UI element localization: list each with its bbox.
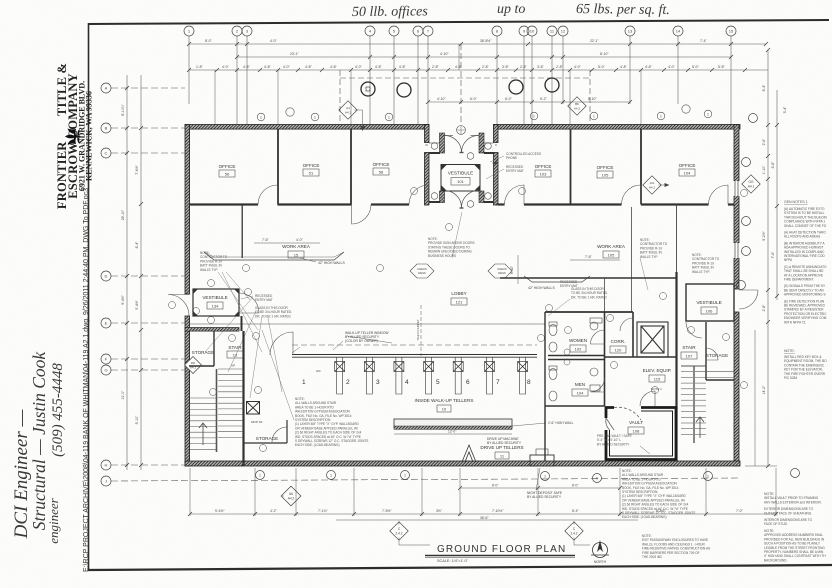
right vertical dimension lines — [745, 50, 777, 466]
bottom exterior wall — [185, 461, 740, 466]
vestibule 106 door (to exterior) — [739, 290, 758, 309]
diamond C/2.4.2 left — [390, 521, 408, 540]
svg-text:103: 103 — [540, 172, 547, 177]
svg-text:C: C — [105, 151, 108, 156]
svg-text:STAIR: STAIR — [682, 345, 696, 350]
svg-text:1: 1 — [660, 115, 662, 119]
svg-text:EACH SIDE. (LOAD-BEARING): EACH SIDE. (LOAD-BEARING) — [295, 443, 340, 447]
svg-text:4'-0": 4'-0" — [296, 238, 304, 242]
svg-text:4'-8": 4'-8" — [620, 65, 628, 69]
rear counter — [394, 419, 512, 429]
diamond marker GG/A4.1 office 104 — [643, 176, 670, 194]
svg-text:2'-8": 2'-8" — [556, 65, 564, 69]
svg-text:WORK AREA: WORK AREA — [597, 244, 626, 249]
svg-text:4'-0": 4'-0" — [283, 65, 291, 69]
svg-text:106: 106 — [706, 309, 713, 314]
top dimension line row 2 — [237, 56, 731, 58]
svg-text:up to: up to — [497, 2, 525, 17]
svg-text:ENTRY MAT: ENTRY MAT — [255, 298, 273, 302]
exterior double entry doors — [445, 135, 480, 152]
top dimension line row 4 (canopy) — [428, 101, 630, 103]
svg-text:GG: GG — [749, 180, 754, 184]
svg-text:2'-6": 2'-6" — [762, 138, 766, 146]
svg-text:A4.2: A4.2 — [574, 107, 581, 111]
svg-text:(509) 455-4448: (509) 455-4448 — [50, 363, 66, 457]
tile/carpet transition — [420, 305, 422, 356]
vestibule 134 interior door — [239, 293, 259, 313]
svg-text:WALLS TYP.: WALLS TYP. — [640, 255, 658, 259]
teller back wall — [544, 312, 546, 461]
lower-left interior walls — [244, 442, 288, 444]
svg-text:10: 10 — [530, 29, 535, 34]
entry recess side walls — [425, 125, 430, 143]
recessed entry mat right note — [560, 280, 608, 299]
svg-text:2.4.2: 2.4.2 — [570, 532, 577, 536]
vestibule 134 walls — [193, 289, 239, 316]
svg-text:4: 4 — [405, 379, 409, 386]
svg-text:LOBBY: LOBBY — [451, 291, 466, 296]
svg-text:22'-1": 22'-1" — [590, 39, 599, 43]
stair treads left (two flights) — [190, 369, 243, 452]
svg-text:OUTSIDE FACE OF SHEATHING.: OUTSIDE FACE OF SHEATHING. — [764, 511, 812, 515]
svg-text:A4.2: A4.2 — [288, 497, 295, 501]
svg-text:PIC 5284: PIC 5284 — [784, 376, 797, 380]
svg-text:13: 13 — [233, 353, 238, 358]
storage lower-left door arc — [272, 427, 287, 442]
svg-text:4'-0": 4'-0" — [574, 65, 582, 69]
sheet border left — [88, 23, 90, 570]
work area divider wall — [241, 205, 243, 259]
svg-text:28'-10": 28'-10" — [121, 209, 125, 220]
svg-text:6: 6 — [466, 379, 470, 386]
svg-text:134: 134 — [212, 304, 219, 309]
svg-text:EACH SIDE. (LOAD-BEARING): EACH SIDE. (LOAD-BEARING) — [622, 515, 667, 519]
storage/stair divider — [213, 331, 215, 366]
svg-text:BY ALLIED SECURITY: BY ALLIED SECURITY — [597, 442, 630, 446]
svg-text:8'-0": 8'-0" — [572, 484, 579, 488]
svg-text:1'-10": 1'-10" — [762, 165, 766, 174]
drive up machine note — [487, 437, 522, 445]
svg-text:FACE OF STUD.: FACE OF STUD. — [764, 522, 788, 526]
svg-text:UP: UP — [231, 364, 235, 368]
entry head walls — [429, 153, 494, 202]
vestibule 106 inner door — [686, 322, 702, 338]
svg-text:OFFICE: OFFICE — [679, 163, 696, 168]
svg-text:HIC: HIC — [316, 369, 321, 373]
counter line — [292, 355, 537, 358]
svg-text:23'-1": 23'-1" — [290, 52, 299, 56]
core right wall — [675, 272, 677, 461]
diamond marker DD/A4.1 left wall — [185, 357, 202, 374]
wall below vestibule 134 — [185, 328, 239, 332]
svg-text:B: B — [105, 126, 108, 131]
diamond marker B6/A4.2 top right — [568, 97, 586, 115]
svg-text:38'-8½": 38'-8½" — [480, 39, 492, 43]
corr bottom / elev equip top — [605, 356, 677, 358]
handwritten top note — [352, 2, 670, 20]
svg-text:FIRE DEPARTMENT.: FIRE DEPARTMENT. — [784, 278, 814, 282]
svg-text:engineer: engineer — [46, 497, 61, 543]
svg-text:1: 1 — [533, 115, 535, 119]
svg-text:DESK: DESK — [418, 271, 426, 275]
svg-text:36'-6": 36'-6" — [480, 516, 489, 520]
svg-text:NOTE:: NOTE: — [784, 349, 795, 353]
lobby floor transition line — [190, 323, 546, 325]
entry door piers — [440, 133, 445, 153]
svg-text:7'-6": 7'-6" — [262, 238, 270, 242]
svg-text:4'-8": 4'-8" — [399, 65, 407, 69]
note contractor right work area — [640, 238, 668, 259]
grab bar circles — [564, 349, 570, 365]
svg-text:8'-10¾": 8'-10¾" — [121, 103, 125, 115]
svg-text:STORAGE: STORAGE — [256, 436, 278, 441]
svg-text:6'-0": 6'-0" — [470, 97, 478, 101]
left lobby door arc — [270, 332, 293, 355]
left wing top exterior wall — [185, 125, 429, 130]
stair up arrow — [199, 423, 207, 445]
teller window leader note — [345, 331, 389, 343]
svg-text:2.4.2: 2.4.2 — [395, 532, 402, 536]
dashed queue lines in lobby — [292, 344, 537, 346]
svg-text:51: 51 — [309, 171, 314, 176]
svg-text:VAULT: VAULT — [629, 420, 643, 425]
svg-text:102: 102 — [575, 347, 582, 352]
svg-text:VESTIBULE: VESTIBULE — [696, 300, 721, 305]
svg-text:1: 1 — [593, 115, 595, 119]
svg-text:DESK: DESK — [498, 271, 506, 275]
svg-text:ALL ROOFS AND AREAS: ALL ROOFS AND AREAS — [784, 235, 820, 239]
svg-text:7'-0": 7'-0" — [736, 509, 744, 513]
svg-text:SHALL CONSIST OF THE FO: SHALL CONSIST OF THE FO — [784, 224, 827, 228]
restroom right wall / corr walls — [604, 312, 606, 406]
svg-text:65 lbs. per sq. ft.: 65 lbs. per sq. ft. — [576, 2, 670, 18]
left vertical dimension lines — [127, 75, 141, 470]
svg-text:5'-4½": 5'-4½" — [135, 299, 139, 309]
svg-text:8'-10": 8'-10" — [510, 266, 514, 274]
right wing top exterior wall — [494, 125, 741, 130]
svg-text:4'-8": 4'-8" — [243, 65, 251, 69]
vestibule 134 right wall lower — [241, 316, 243, 331]
svg-text:50 llb. offices: 50 llb. offices — [352, 4, 429, 20]
diamond A6/A4.2 lower-left — [281, 486, 301, 506]
stair block right wall — [242, 331, 244, 466]
svg-text:4'-8": 4'-8" — [375, 65, 383, 69]
diamond C/2.4.2 right — [565, 521, 583, 540]
svg-text:3'-8": 3'-8" — [502, 65, 510, 69]
svg-text:1: 1 — [314, 116, 316, 120]
svg-text:APPROVED MONITORING S: APPROVED MONITORING S — [784, 293, 826, 297]
svg-text:A4.2: A4.2 — [345, 111, 352, 115]
svg-text:ANY WALLS EXTERIOR and INTERIO: ANY WALLS EXTERIOR and INTERIOR. — [764, 500, 822, 504]
office door arcs — [258, 185, 728, 224]
svg-text:105: 105 — [608, 253, 615, 258]
svg-text:4'-2": 4'-2" — [270, 509, 278, 513]
svg-text:A4.1: A4.1 — [649, 186, 656, 190]
svg-text:ENTRY MAT: ENTRY MAT — [506, 169, 524, 173]
svg-text:VESTIBULE: VESTIBULE — [202, 295, 227, 300]
svg-text:D: D — [105, 274, 108, 279]
svg-text:WALLS TYP.: WALLS TYP. — [200, 268, 218, 272]
svg-text:21'-0": 21'-0" — [121, 390, 125, 399]
svg-text:121: 121 — [456, 300, 463, 305]
svg-text:2'-8": 2'-8" — [432, 65, 440, 69]
svg-text:1'-8": 1'-8" — [196, 65, 204, 69]
under counter dim — [394, 433, 512, 435]
room number boxes — [207, 168, 717, 459]
svg-text:7'-6": 7'-6" — [771, 251, 775, 259]
svg-text:OFFICE: OFFICE — [219, 164, 236, 169]
svg-text:4'-0": 4'-0" — [270, 39, 278, 43]
svg-text:4'-0": 4'-0" — [222, 65, 230, 69]
svg-text:5'-2": 5'-2" — [540, 97, 548, 101]
long leader diagonals (note references) — [205, 212, 648, 420]
svg-text:5'-0": 5'-0" — [598, 65, 606, 69]
night deposit safe — [530, 455, 554, 466]
women/men divider wall — [548, 356, 604, 360]
svg-text:SCALE: 1/4"=1'-0": SCALE: 1/4"=1'-0" — [437, 559, 469, 563]
note above doors (left center) — [428, 237, 475, 258]
svg-text:KENNEWICK, WA 99336: KENNEWICK, WA 99336 — [85, 91, 94, 181]
svg-text:14: 14 — [676, 29, 681, 34]
svg-text:1: 1 — [260, 116, 262, 120]
keynote circles at entries — [431, 126, 491, 208]
svg-text:4'-0": 4'-0" — [355, 65, 363, 69]
svg-text:8'-4": 8'-4" — [135, 241, 139, 249]
restrooms bottom wall — [545, 405, 605, 407]
svg-text:OFFICE: OFFICE — [535, 164, 552, 169]
svg-text:8'-10": 8'-10" — [600, 52, 609, 56]
svg-text:(COLOR BY OWNER): (COLOR BY OWNER) — [345, 339, 378, 343]
office band bottom wall right wing — [498, 203, 734, 205]
svg-text:MOP SK: MOP SK — [251, 420, 263, 424]
svg-text:A6: A6 — [289, 492, 293, 496]
right wall window gaps — [734, 181, 740, 258]
overall dim line with diamonds — [336, 519, 638, 521]
svg-text:8'-8½": 8'-8½" — [656, 509, 666, 513]
interior keynote circles scattered — [169, 188, 748, 452]
storefront glazing corner blocks — [441, 165, 480, 192]
svg-text:A4: A4 — [346, 106, 350, 110]
drive up window triangle — [462, 445, 476, 462]
mop sink shaft with X — [247, 402, 260, 415]
dimension text top — [196, 39, 726, 101]
logo fleur-de-lis — [65, 129, 81, 145]
svg-text:GG: GG — [650, 181, 655, 185]
svg-text:DR. TO BE 1 HR. RATED: DR. TO BE 1 HR. RATED — [255, 314, 292, 318]
note contractor R-19 left — [200, 251, 228, 272]
svg-text:2: 2 — [346, 379, 350, 386]
top dimension line row 3 — [189, 69, 745, 71]
handwritten engineer note (rotated) — [11, 351, 66, 544]
svg-text:BY ALLIED SECURITY: BY ALLIED SECURITY — [487, 441, 522, 445]
vestibule 134 glazing corners — [193, 289, 239, 316]
svg-text:7'-1¾": 7'-1¾" — [318, 509, 328, 513]
svg-text:WALLS TYP.: WALLS TYP. — [692, 270, 710, 274]
office band bottom wall left wing — [189, 203, 409, 205]
svg-text:7'-6½": 7'-6½" — [135, 164, 139, 174]
svg-text:A4.1: A4.1 — [748, 185, 755, 189]
svg-text:MEN: MEN — [575, 382, 585, 387]
svg-text:1: 1 — [404, 474, 406, 478]
svg-text:14'-2": 14'-2" — [762, 385, 766, 394]
right exterior wall — [734, 125, 739, 290]
svg-text:WITH NFPA 72.: WITH NFPA 72. — [784, 320, 806, 324]
svg-text:8'-4": 8'-4" — [572, 509, 580, 513]
svg-text:STORAGE: STORAGE — [192, 350, 214, 355]
svg-text:NFPA: NFPA — [784, 258, 793, 262]
svg-text:104: 104 — [684, 171, 691, 176]
canopy columns — [361, 78, 559, 97]
svg-text:1: 1 — [259, 474, 261, 478]
office separator walls — [278, 129, 641, 205]
svg-text:5: 5 — [436, 379, 440, 386]
svg-text:1: 1 — [707, 475, 709, 479]
svg-text:42" HIGH WALLS: 42" HIGH WALLS — [528, 286, 555, 290]
svg-text:9'-4½": 9'-4½" — [121, 294, 125, 304]
svg-text:4'-8": 4'-8" — [330, 65, 338, 69]
corridor walls up to offices — [605, 207, 632, 312]
svg-text:ENTRY MAT: ENTRY MAT — [560, 284, 578, 288]
svg-text:15: 15 — [294, 253, 299, 258]
left exterior door arc — [168, 295, 189, 316]
svg-text:CORR.: CORR. — [611, 339, 626, 344]
svg-text:8: 8 — [527, 379, 531, 386]
svg-text:3: 3 — [376, 379, 380, 386]
svg-text:2'-8": 2'-8" — [482, 65, 490, 69]
restroom doors — [591, 318, 634, 392]
svg-text:BUSINESS HOURS: BUSINESS HOURS — [428, 254, 456, 258]
recessed entry mat left note — [255, 294, 292, 318]
top dimension line row 1 — [189, 43, 766, 45]
right lower notes — [764, 492, 822, 526]
svg-text:56: 56 — [225, 172, 230, 177]
diamond marker right — [742, 175, 760, 193]
note contractor R-19 right — [692, 253, 720, 274]
svg-text:8'-4": 8'-4" — [762, 84, 766, 92]
svg-text:WOMEN: WOMEN — [569, 338, 587, 343]
svg-text:4'-8": 4'-8" — [645, 65, 653, 69]
sheet border top — [88, 20, 829, 24]
vault door — [606, 407, 641, 430]
svg-text:2'-8": 2'-8" — [520, 65, 528, 69]
svg-text:10: 10 — [442, 407, 447, 412]
core top wall — [500, 277, 677, 279]
north arrow — [591, 540, 609, 564]
check desk hexagon 2 — [488, 264, 512, 278]
bottom right note (exit passageway) — [642, 534, 710, 559]
svg-text:BACKGROUND.: BACKGROUND. — [764, 558, 788, 562]
svg-text:15: 15 — [729, 29, 734, 34]
svg-text:4'-8": 4'-8" — [264, 65, 272, 69]
svg-text:OFFICE: OFFICE — [303, 163, 320, 168]
svg-text:WORK AREA: WORK AREA — [282, 244, 311, 249]
svg-text:BY ALLIED SECURITY: BY ALLIED SECURITY — [527, 495, 562, 499]
canopy dashed outline — [340, 44, 590, 124]
work area dim marks — [254, 243, 620, 260]
dimension ticks top rows — [187, 42, 768, 104]
elevator shaft — [637, 322, 668, 357]
controlled access phone note — [506, 152, 541, 173]
svg-text:INSIDE WALK-UP TELLERS: INSIDE WALK-UP TELLERS — [415, 398, 474, 403]
keynote circle row above office doors — [257, 105, 712, 121]
svg-text:7: 7 — [496, 379, 500, 386]
svg-text:8'-0": 8'-0" — [492, 484, 499, 488]
svg-text:2'-8": 2'-8" — [762, 304, 766, 312]
svg-text:B6: B6 — [575, 102, 579, 106]
svg-text:5'-8": 5'-8" — [718, 65, 726, 69]
svg-text:4'-8": 4'-8" — [305, 65, 313, 69]
svg-text:DRIVE UP TELLERS: DRIVE UP TELLERS — [480, 445, 523, 450]
svg-text:6'-8": 6'-8" — [771, 161, 775, 169]
stair/storage divider right — [705, 322, 707, 380]
column grid stems to wall — [215, 44, 641, 124]
storefront glazing lines — [429, 142, 494, 144]
right stair up arrow — [696, 417, 704, 438]
vertical extents bottom left dims — [190, 468, 776, 516]
tiny grid bubble letters — [188, 29, 734, 34]
svg-text:GROUND FLOOR PLAN: GROUND FLOOR PLAN — [437, 544, 566, 555]
svg-text:NOTE 1: NOTE 1 — [651, 387, 662, 391]
vestibule 106 walls — [686, 284, 734, 321]
company title block (rotated) — [55, 63, 94, 209]
diamond marker A4/A4.2 top — [339, 101, 365, 131]
svg-text:8'-0": 8'-0" — [205, 39, 213, 43]
restroom fixtures men — [549, 366, 600, 401]
42in high walls right — [524, 276, 590, 282]
svg-text:9'-10": 9'-10" — [135, 415, 139, 424]
svg-text:1: 1 — [388, 116, 390, 120]
svg-text:3½": 3½" — [436, 509, 443, 513]
svg-text:ELEV. EQUIP.: ELEV. EQUIP. — [643, 368, 672, 373]
svg-text:104: 104 — [577, 391, 584, 396]
svg-text:115: 115 — [654, 377, 661, 382]
svg-text:G: G — [104, 368, 107, 373]
svg-text:107: 107 — [686, 354, 693, 359]
keynote circles below bottom wall — [256, 469, 800, 483]
svg-text:4'-0": 4'-0" — [668, 65, 676, 69]
storage right door — [706, 348, 718, 360]
svg-text:THE 2003 IBC: THE 2003 IBC — [642, 555, 663, 559]
svg-text:OFFICE: OFFICE — [373, 162, 390, 167]
svg-text:1: 1 — [330, 474, 332, 478]
svg-text:A: A — [105, 86, 108, 91]
svg-text:105: 105 — [602, 173, 609, 178]
svg-text:9'-2½": 9'-2½" — [762, 230, 766, 240]
stair treads right — [681, 366, 734, 443]
svg-text:8'-10": 8'-10" — [588, 97, 597, 101]
svg-text:1: 1 — [544, 475, 546, 479]
svg-text:7'-10½": 7'-10½" — [492, 509, 504, 513]
svg-text:7'-4": 7'-4" — [700, 39, 708, 43]
svg-text:12: 12 — [561, 29, 566, 34]
svg-text:H: H — [105, 463, 108, 468]
vault walls (thick) — [606, 408, 676, 460]
svg-text:4'-10": 4'-10" — [437, 97, 446, 101]
restroom fixtures women — [549, 318, 602, 352]
interior double entry doors — [445, 190, 480, 208]
svg-text:NORTH: NORTH — [594, 560, 607, 564]
vault note — [597, 434, 632, 446]
teller partitions with x-boxes — [337, 357, 526, 394]
svg-text:42" HIGH WALLS: 42" HIGH WALLS — [318, 261, 345, 265]
check desk hexagon 1 — [410, 264, 434, 278]
svg-text:5'-0": 5'-0" — [692, 65, 700, 69]
svg-text:E: E — [105, 321, 108, 326]
right keynote circles — [737, 114, 758, 290]
bottom dim line — [190, 513, 776, 515]
svg-text:3'-4": 3'-4" — [783, 106, 787, 114]
svg-text:108: 108 — [633, 429, 640, 434]
